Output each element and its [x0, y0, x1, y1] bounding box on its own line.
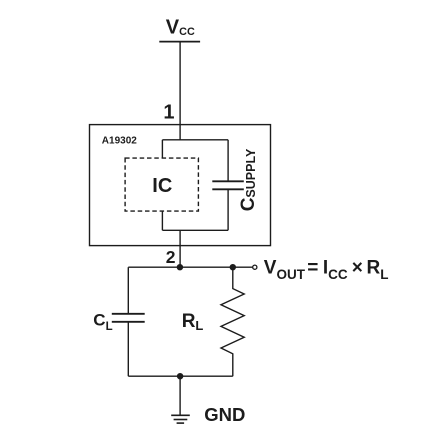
- IC package box A19302: [90, 125, 271, 246]
- svg-text:A19302: A19302: [102, 135, 137, 146]
- node junction dot at ground: [177, 373, 183, 379]
- output terminal open circle: [253, 265, 257, 269]
- resistor RL zigzag: [221, 267, 244, 376]
- wire: pin 2 box bottom to output node: [179, 230, 181, 267]
- svg-text:GND: GND: [204, 404, 245, 425]
- node junction dot at RL top: [230, 264, 236, 270]
- ground symbol: [171, 415, 190, 423]
- capacitor C_SUPPLY: [212, 181, 244, 189]
- wire: inner bottom rail: [162, 229, 228, 231]
- wire: IC bottom to bottom rail: [161, 211, 163, 230]
- wire: bottom rail: [128, 375, 233, 377]
- wire: inner top rail: [162, 139, 228, 141]
- dashed die box: [125, 158, 198, 211]
- capacitor CL: [112, 314, 145, 322]
- wire: C supply to bottom rail: [227, 189, 229, 230]
- wire: right branch top rail to C supply: [227, 140, 229, 182]
- svg-text:IC: IC: [152, 175, 172, 197]
- wire: left branch down to IC top: [161, 140, 163, 158]
- wire: left branch rail down to CL: [127, 267, 129, 314]
- wire: Vcc down to IC box pin 1: [179, 42, 181, 140]
- svg-text:2: 2: [166, 247, 176, 267]
- Vcc supply bar: [159, 41, 200, 43]
- wire: output rail: [128, 266, 252, 268]
- node junction dot at pin 2: [177, 264, 183, 270]
- wire: CL to bottom rail: [127, 322, 129, 376]
- svg-text:1: 1: [163, 102, 174, 124]
- wire: ground stub: [179, 376, 181, 414]
